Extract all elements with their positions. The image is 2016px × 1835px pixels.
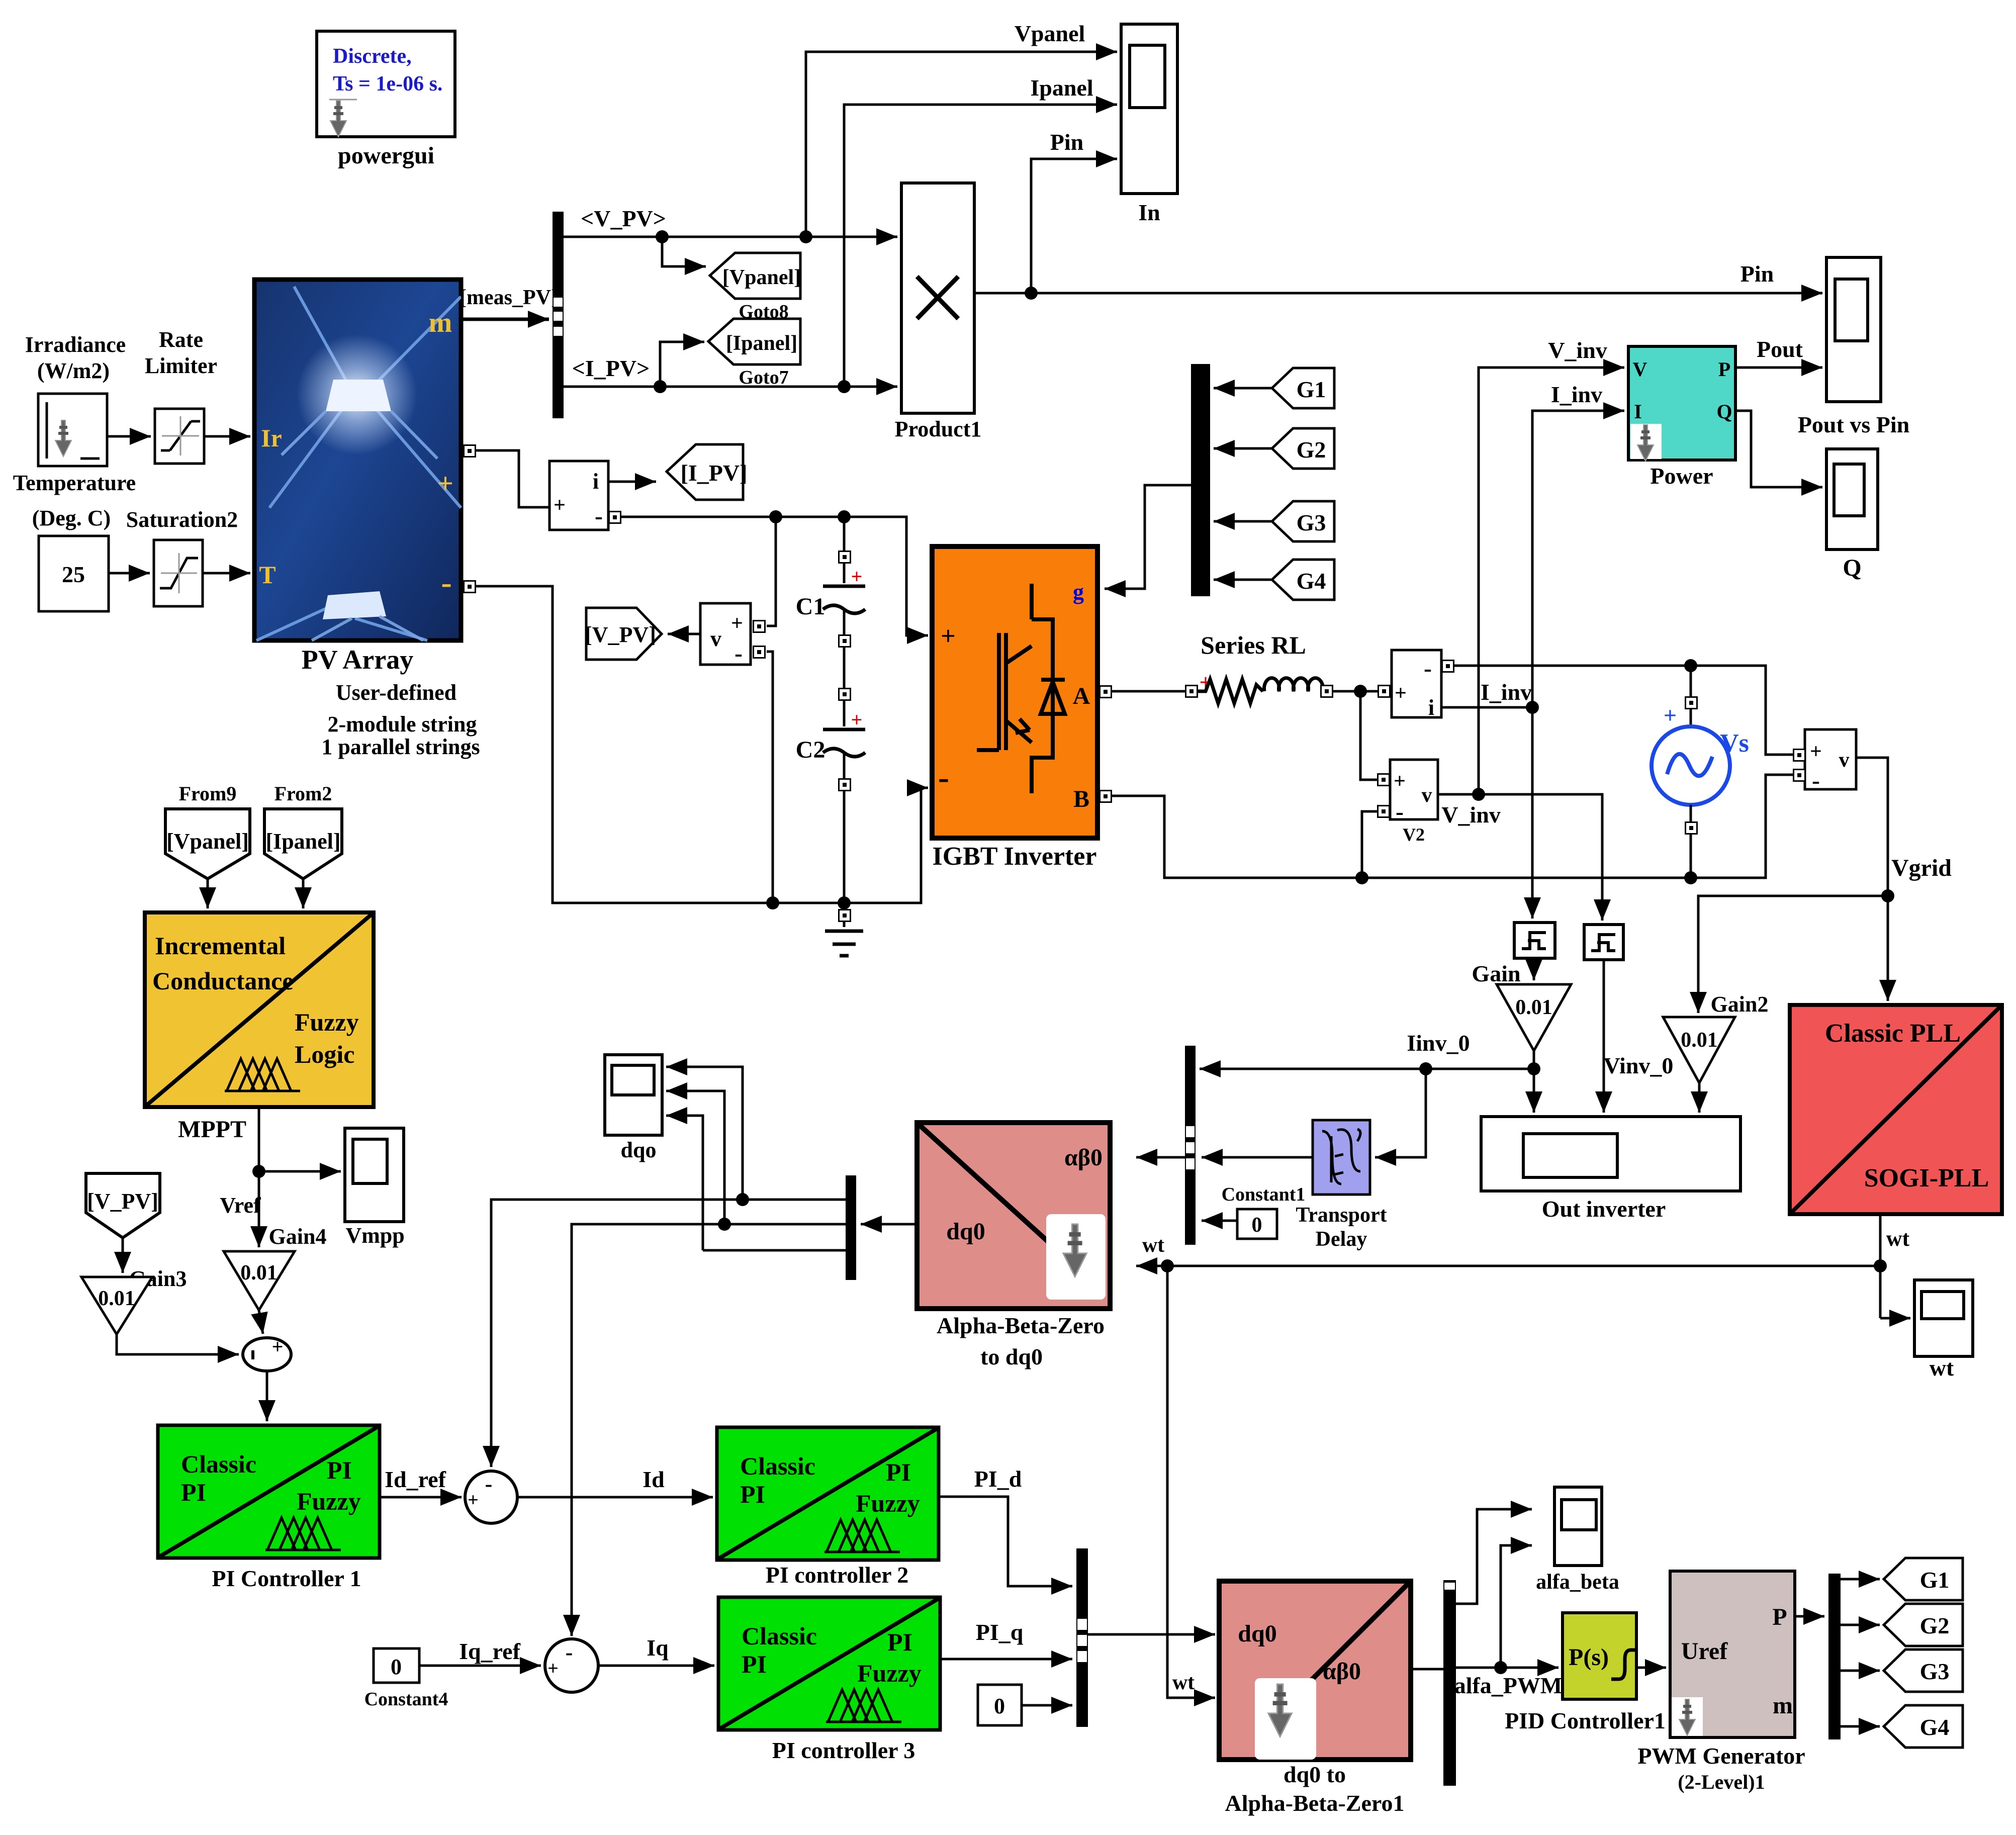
product Product1 — [901, 183, 974, 413]
port IGBT B — [1099, 790, 1112, 802]
wire mux4 to G3 — [1841, 1670, 1880, 1672]
svg-text:Q: Q — [1843, 555, 1861, 581]
svg-text:v: v — [1839, 749, 1850, 772]
svg-text:-: - — [1396, 798, 1404, 825]
svg-text:Irradiance: Irradiance — [25, 332, 126, 357]
port cap bottom — [839, 779, 851, 791]
svg-text:m: m — [429, 307, 452, 338]
wire 25 to Saturation2 — [109, 572, 150, 575]
wire From9 to MPPT — [207, 879, 209, 908]
wire to Goto8 — [662, 237, 706, 266]
port cap top — [839, 551, 851, 563]
gain Gain2 — [1663, 1017, 1735, 1083]
Temperature constant 25 — [39, 536, 109, 611]
svg-text:0: 0 — [391, 1655, 402, 1679]
svg-text:P: P — [1772, 1604, 1787, 1630]
svg-text:Ts = 1e-06 s.: Ts = 1e-06 s. — [333, 72, 442, 96]
svg-text:Gain4: Gain4 — [269, 1224, 327, 1249]
wire capacitor chain — [843, 517, 846, 927]
svg-text:[Vpanel]: [Vpanel] — [722, 266, 801, 289]
wire PV minus rail to IGBT minus — [475, 586, 928, 909]
wire demux4 to alfa_beta scope in1 — [1456, 1509, 1532, 1604]
PV - port — [464, 581, 476, 593]
svg-text:C1: C1 — [796, 593, 826, 620]
port IGBT A — [1099, 686, 1112, 698]
svg-text:V2: V2 — [1403, 824, 1425, 845]
voltage measurement grid v — [1805, 729, 1856, 794]
wire G4 to gate mux — [1214, 579, 1272, 581]
scope Out inverter — [1481, 1117, 1740, 1191]
svg-text:B: B — [1073, 786, 1089, 812]
svg-text:+: + — [554, 494, 566, 517]
goto G4 — [1884, 1705, 1963, 1748]
Saturation2 block — [154, 540, 203, 606]
wire V2 plus riser — [1360, 691, 1377, 780]
svg-text:1 parallel strings: 1 parallel strings — [321, 735, 480, 759]
svg-text:Vpanel: Vpanel — [1015, 21, 1085, 46]
svg-text:<V_PV>: <V_PV> — [581, 206, 666, 231]
gain Gain3 — [81, 1277, 152, 1334]
wire mux3 to dq0 block — [1088, 1633, 1215, 1636]
svg-text:[Ipanel]: [Ipanel] — [265, 829, 340, 854]
PV Array block — [254, 280, 461, 640]
svg-text:G2: G2 — [1297, 437, 1326, 463]
svg-text:PI_d: PI_d — [974, 1466, 1022, 1492]
svg-text:dq0: dq0 — [946, 1218, 985, 1245]
wire sum to PI Controller 1 — [266, 1371, 268, 1421]
gate mux — [1191, 364, 1210, 596]
svg-text:+: + — [272, 1335, 284, 1358]
wire Constant1 to mux2 — [1202, 1220, 1237, 1222]
svg-text:-: - — [735, 640, 743, 667]
svg-text:PI_q: PI_q — [976, 1619, 1024, 1645]
svg-text:0.01: 0.01 — [1681, 1029, 1718, 1052]
wire Irradiance to Rate Limiter — [107, 435, 151, 438]
svg-text:V_inv: V_inv — [1548, 337, 1607, 363]
svg-text:Out inverter: Out inverter — [1542, 1196, 1666, 1222]
subsystem PI controller 2 — [717, 1427, 939, 1560]
port ground — [839, 909, 851, 922]
wire Id_ref — [380, 1496, 462, 1499]
wire wt down — [1167, 1266, 1215, 1698]
from From9 Vpanel — [165, 809, 250, 879]
wire Iq_ref — [419, 1665, 541, 1667]
subsystem Power — [1628, 346, 1735, 461]
wire Uref — [1636, 1667, 1666, 1669]
svg-text:+: + — [547, 1658, 559, 1679]
subsystem PI Controller 1 — [158, 1425, 380, 1558]
wire Id — [517, 1496, 713, 1499]
svg-text:Alpha-Beta-Zero1: Alpha-Beta-Zero1 — [1225, 1790, 1405, 1816]
wire V2 v output — [1438, 788, 1602, 921]
resistor Series RL — [1198, 670, 1263, 703]
svg-text:C2: C2 — [796, 737, 826, 763]
wire PV+ to current meas — [475, 450, 549, 507]
wire mux4 to G1 — [1841, 1578, 1880, 1581]
wire i out I_inv — [1441, 701, 1539, 714]
svg-text:Pout vs Pin: Pout vs Pin — [1798, 412, 1909, 437]
svg-text:Saturation2: Saturation2 — [126, 507, 238, 532]
constant Constant4 — [374, 1648, 419, 1683]
svg-text:From2: From2 — [274, 782, 332, 805]
wire V2 minus riser — [1362, 811, 1377, 878]
voltage measurement V2 — [1390, 760, 1438, 825]
svg-text:Power: Power — [1650, 463, 1713, 489]
wire demux q to sum Iq — [572, 1218, 846, 1636]
svg-text:i: i — [1428, 695, 1434, 720]
svg-text:Ipanel: Ipanel — [1030, 75, 1093, 101]
wire Gain2 to Out inverter — [1698, 1083, 1701, 1113]
wire gate mux to IGBT g — [1105, 485, 1191, 589]
wire PLL wt out — [1874, 1214, 1887, 1318]
svg-text:Constant4: Constant4 — [364, 1689, 448, 1710]
svg-text:<I_PV>: <I_PV> — [572, 355, 650, 381]
bus selector — [553, 212, 564, 418]
wire Gain out — [1527, 1051, 1540, 1075]
wire I_inv minus to Vs and v plus — [1453, 659, 1793, 755]
svg-text:(Deg. C): (Deg. C) — [32, 506, 111, 530]
svg-text:Pin: Pin — [1050, 129, 1083, 155]
svg-text:+: + — [851, 565, 863, 588]
wire riser to V meas plus — [767, 517, 776, 626]
wire RL to I_inv meas — [1332, 685, 1378, 698]
wire Gain3 to sum — [117, 1334, 239, 1354]
svg-text:[I_PV]: [I_PV] — [681, 460, 748, 486]
svg-text:Product1: Product1 — [895, 417, 982, 441]
wire Vinv sat down — [1603, 960, 1605, 1113]
svg-text:Delay: Delay — [1316, 1228, 1367, 1251]
svg-text:Goto7: Goto7 — [739, 367, 788, 388]
svg-text:PI controller 2: PI controller 2 — [766, 1562, 908, 1588]
gain Gain4 — [224, 1251, 295, 1310]
svg-text:Fuzzy: Fuzzy — [295, 1008, 359, 1036]
port I_inv meas minus out — [1442, 660, 1454, 672]
svg-text:Rate: Rate — [159, 327, 203, 352]
svg-text:Vgrid: Vgrid — [1891, 855, 1952, 881]
svg-text:(W/m2): (W/m2) — [37, 358, 110, 383]
svg-text:Classic PLL: Classic PLL — [1825, 1019, 1961, 1048]
from G2 — [1272, 428, 1334, 469]
demux1 — [846, 1175, 856, 1280]
svg-text:+: + — [1810, 740, 1822, 763]
capacitor C2 — [796, 708, 865, 763]
wire wt into alpha-beta-zero — [1136, 1265, 1167, 1267]
svg-text:G1: G1 — [1297, 377, 1326, 402]
port cap mid2 — [839, 688, 851, 700]
svg-text:[V_PV]: [V_PV] — [87, 1189, 158, 1214]
port V2 minus — [1378, 805, 1390, 817]
svg-text:V: V — [1633, 358, 1647, 381]
current measurement I_inv — [1392, 650, 1441, 720]
svg-text:User-defined: User-defined — [336, 680, 456, 705]
saturation block Vinv — [1584, 925, 1623, 960]
svg-text:Gain: Gain — [1472, 961, 1520, 986]
svg-text:G4: G4 — [1297, 568, 1326, 594]
sum Vref — [243, 1335, 291, 1371]
svg-text:Gain2: Gain2 — [1711, 992, 1769, 1017]
svg-text:Vmpp: Vmpp — [345, 1223, 404, 1248]
svg-text:25: 25 — [62, 562, 85, 587]
wire wt to scope — [1880, 1317, 1910, 1320]
svg-text:Pout: Pout — [1757, 336, 1803, 362]
svg-text:Q: Q — [1716, 400, 1732, 423]
svg-text:Uref: Uref — [1681, 1638, 1728, 1665]
svg-text:Limiter: Limiter — [145, 353, 217, 378]
goto G1 — [1884, 1558, 1963, 1600]
svg-text:+: + — [1395, 682, 1407, 705]
svg-text:+: + — [1664, 702, 1677, 728]
port Series RL left — [1185, 685, 1198, 697]
subsystem Classic PLL SOGI-PLL — [1790, 1005, 2002, 1214]
svg-text:PWM Generator: PWM Generator — [1637, 1743, 1805, 1769]
goto G3 — [1884, 1649, 1963, 1692]
wire Iinv_0 to Out inverter — [1533, 1069, 1535, 1113]
svg-text:-: - — [566, 1640, 573, 1665]
goto G2 — [1884, 1604, 1963, 1646]
svg-text:v: v — [710, 626, 721, 651]
svg-text:+: + — [1394, 770, 1406, 793]
port I_inv meas plus — [1378, 685, 1390, 697]
wire Vs top — [1690, 666, 1692, 727]
svg-text:Id_ref: Id_ref — [385, 1466, 446, 1492]
wire Vgrid — [1856, 758, 1894, 1001]
svg-text:IGBT Inverter: IGBT Inverter — [933, 842, 1097, 871]
from G4 — [1272, 560, 1334, 600]
wire wt rail — [1161, 1259, 1880, 1272]
port Series RL right — [1321, 685, 1333, 697]
port V meas minus — [753, 646, 765, 658]
svg-text:Temperature: Temperature — [13, 471, 136, 495]
wire V_PV to Gain3 — [122, 1238, 124, 1273]
svg-text:2-module string: 2-module string — [328, 712, 477, 737]
port Vs top — [1685, 697, 1697, 709]
svg-text:powergui: powergui — [338, 142, 434, 169]
port V meas plus — [753, 620, 765, 632]
svg-text:Alpha-Beta-Zero: Alpha-Beta-Zero — [937, 1313, 1105, 1338]
svg-text:SOGI-PLL: SOGI-PLL — [1864, 1164, 1989, 1192]
gain Gain 0.01 — [1497, 984, 1571, 1051]
wire riser to V meas minus — [767, 652, 773, 903]
svg-text:Id: Id — [643, 1466, 665, 1492]
wire Iinv vertical — [1531, 707, 1534, 919]
wire Gain4 to sum — [259, 1310, 263, 1334]
svg-text:Transport: Transport — [1296, 1204, 1387, 1227]
svg-text:αβ0: αβ0 — [1323, 1658, 1361, 1685]
svg-text:Incremental: Incremental — [155, 932, 286, 960]
wire IGBT A to Series RL — [1112, 690, 1185, 693]
wire mux4 to G2 — [1841, 1624, 1880, 1626]
svg-text:v: v — [1422, 784, 1432, 807]
svg-text:+: + — [731, 612, 743, 635]
delay Transport Delay — [1313, 1120, 1370, 1195]
svg-text:alfa_PWM: alfa_PWM — [1454, 1673, 1563, 1698]
subsystem dq0 to Alpha-Beta-Zero1 — [1219, 1581, 1411, 1760]
svg-text:+: + — [941, 622, 956, 651]
wire G1 to gate mux — [1214, 387, 1272, 390]
svg-text:alfa_beta: alfa_beta — [1536, 1571, 1619, 1594]
wire to Goto7 — [660, 342, 704, 387]
sum Iq — [545, 1639, 598, 1692]
svg-text:to dq0: to dq0 — [980, 1344, 1043, 1369]
svg-text:G3: G3 — [1297, 510, 1326, 535]
saturation block Iinv — [1514, 923, 1555, 958]
svg-text:+: + — [437, 468, 453, 499]
wire i output to I_PV goto — [608, 481, 656, 483]
svg-text:G4: G4 — [1920, 1714, 1950, 1740]
svg-text:0.01: 0.01 — [1515, 996, 1552, 1019]
svg-text:I_inv: I_inv — [1481, 679, 1532, 705]
svg-text:Iq: Iq — [647, 1635, 669, 1661]
port Vs bottom — [1685, 822, 1697, 834]
svg-text:0.01: 0.01 — [240, 1261, 278, 1284]
scope In — [1121, 24, 1177, 194]
svg-text:-: - — [1424, 655, 1432, 682]
svg-text:P: P — [1718, 358, 1730, 381]
wire to Vmpp scope — [259, 1170, 341, 1173]
svg-text:Constant1: Constant1 — [1222, 1184, 1306, 1205]
IGBT Inverter block — [932, 546, 1097, 838]
port cap mid1 — [839, 635, 851, 647]
wire P to mux4 — [1795, 1615, 1824, 1618]
wire riser to dqo scope in2 — [666, 1091, 724, 1224]
wire Ipanel to In scope — [844, 105, 1117, 387]
svg-text:I_inv: I_inv — [1551, 382, 1602, 407]
wire From2 to MPPT — [302, 879, 305, 908]
voltage measurement V_PV — [700, 603, 751, 667]
svg-text:+: + — [468, 1490, 479, 1511]
scope Vmpp — [345, 1128, 404, 1222]
wire G2 to gate mux — [1214, 447, 1272, 450]
svg-text:Vinv_0: Vinv_0 — [1604, 1053, 1674, 1078]
subsystem PI controller 3 — [718, 1597, 940, 1730]
scope alfa_beta — [1554, 1487, 1602, 1566]
wire mux2 to alpha-beta-zero — [1136, 1156, 1185, 1159]
svg-text:T: T — [259, 561, 276, 589]
wire Saturation2 to PV T — [203, 572, 250, 575]
svg-text:wt: wt — [1172, 1671, 1195, 1694]
wire riser to dqo scope in3 — [666, 1116, 703, 1250]
scope Q — [1826, 449, 1878, 549]
wire demux d to sum Id — [491, 1193, 846, 1467]
wire MPPT out — [252, 1107, 265, 1178]
svg-text:-: - — [441, 565, 451, 600]
wire Vref to Gain4 — [258, 1171, 260, 1247]
port V2 plus — [1378, 774, 1390, 786]
mux4 — [1828, 1574, 1841, 1739]
port v minus — [1793, 769, 1805, 781]
wire dq0 block to demux4 — [1411, 1668, 1443, 1671]
wire meas_PV — [461, 318, 549, 321]
subsystem Alpha-Beta-Zero to dq0 — [917, 1123, 1110, 1309]
constant zero mux3 — [978, 1685, 1022, 1725]
svg-text:0.01: 0.01 — [98, 1287, 135, 1310]
svg-text:V_inv: V_inv — [1441, 802, 1501, 828]
scope Pout vs Pin — [1826, 257, 1881, 402]
wire PI_q to mux3 — [940, 1658, 1072, 1661]
svg-text:wt: wt — [1886, 1226, 1910, 1251]
svg-text:Iq_ref: Iq_ref — [459, 1638, 520, 1664]
wire B rail — [1112, 775, 1793, 884]
wire Iinv_0 — [1200, 1062, 1534, 1075]
wire PI_d to mux3 — [939, 1497, 1072, 1586]
wire Rate Limiter to PV Ir — [204, 435, 250, 438]
wire riser to dqo scope in1 — [666, 1067, 743, 1200]
wire alfa_PWM — [1456, 1661, 1559, 1674]
svg-text:-: - — [485, 1472, 493, 1496]
wire Vgrid to Gain2 — [1698, 896, 1888, 1013]
svg-text:PI Controller 1: PI Controller 1 — [212, 1566, 361, 1591]
svg-text:wt: wt — [1142, 1234, 1164, 1257]
svg-text:I: I — [1634, 400, 1642, 423]
svg-text:0: 0 — [1252, 1214, 1262, 1237]
wire Pin riser to In scope — [1025, 159, 1117, 300]
inductor Series RL — [1264, 678, 1323, 691]
svg-text:G2: G2 — [1920, 1613, 1950, 1638]
svg-text:G3: G3 — [1920, 1659, 1950, 1684]
svg-text:m: m — [1773, 1692, 1793, 1719]
svg-text:dqo: dqo — [621, 1138, 657, 1162]
svg-text:Pin: Pin — [1740, 261, 1774, 287]
svg-text:MPPT: MPPT — [178, 1116, 246, 1143]
svg-text:[Vpanel]: [Vpanel] — [166, 829, 249, 854]
wire Pin long — [974, 292, 1822, 295]
wire mux4 to G4 — [1841, 1725, 1880, 1728]
wire Power P to scope — [1735, 366, 1822, 369]
svg-text:PID Controller1: PID Controller1 — [1505, 1708, 1666, 1733]
wire v output to V_PV goto — [668, 633, 700, 635]
PV + port — [464, 445, 476, 457]
svg-text:[Ipanel]: [Ipanel] — [726, 332, 797, 355]
capacitor C1 — [796, 565, 865, 620]
mux3 bus — [1076, 1548, 1088, 1727]
wire alfa_PWM riser to scope in2 — [1501, 1545, 1532, 1668]
svg-text:In: In — [1138, 200, 1160, 225]
subsystem PWM Generator — [1670, 1571, 1795, 1737]
svg-text:i: i — [593, 469, 599, 494]
svg-text:G1: G1 — [1920, 1567, 1950, 1593]
goto V_PV — [585, 608, 662, 660]
port current meas minus — [609, 511, 621, 523]
Irradiance source block — [38, 394, 107, 466]
svg-text:Series RL: Series RL — [1201, 631, 1306, 659]
svg-text:(2-Level)1: (2-Level)1 — [1678, 1771, 1765, 1793]
wire Iq — [598, 1665, 714, 1667]
from V_PV mid — [86, 1173, 160, 1238]
wire Iinv sat to Gain — [1533, 958, 1535, 980]
wire Transport Delay out to mux2 — [1202, 1156, 1313, 1159]
subsystem MPPT Incremental Conductance Fuzzy Logic — [145, 912, 374, 1107]
from From2 Ipanel — [264, 809, 342, 879]
svg-text:Vs: Vs — [1720, 729, 1749, 758]
wire Vpanel to In scope — [806, 52, 1117, 237]
svg-text:P(s): P(s) — [1569, 1644, 1609, 1671]
Rate Limiter block — [155, 409, 204, 464]
svg-text:Vref: Vref — [220, 1193, 261, 1218]
svg-text:αβ0: αβ0 — [1064, 1144, 1103, 1171]
svg-text:+: + — [851, 708, 863, 731]
wire V_PV — [564, 230, 897, 243]
from G3 — [1272, 501, 1334, 541]
svg-text:dq0: dq0 — [1238, 1620, 1276, 1647]
sum Id — [465, 1471, 517, 1523]
svg-text:-: - — [938, 759, 949, 796]
svg-text:0: 0 — [994, 1694, 1005, 1718]
svg-text:PI controller 3: PI controller 3 — [772, 1737, 915, 1763]
svg-text:Logic: Logic — [295, 1040, 354, 1068]
svg-text:PV Array: PV Array — [302, 645, 413, 675]
svg-text:[meas_PV]: [meas_PV] — [460, 286, 558, 309]
wire to Transport Delay — [1375, 1069, 1426, 1157]
